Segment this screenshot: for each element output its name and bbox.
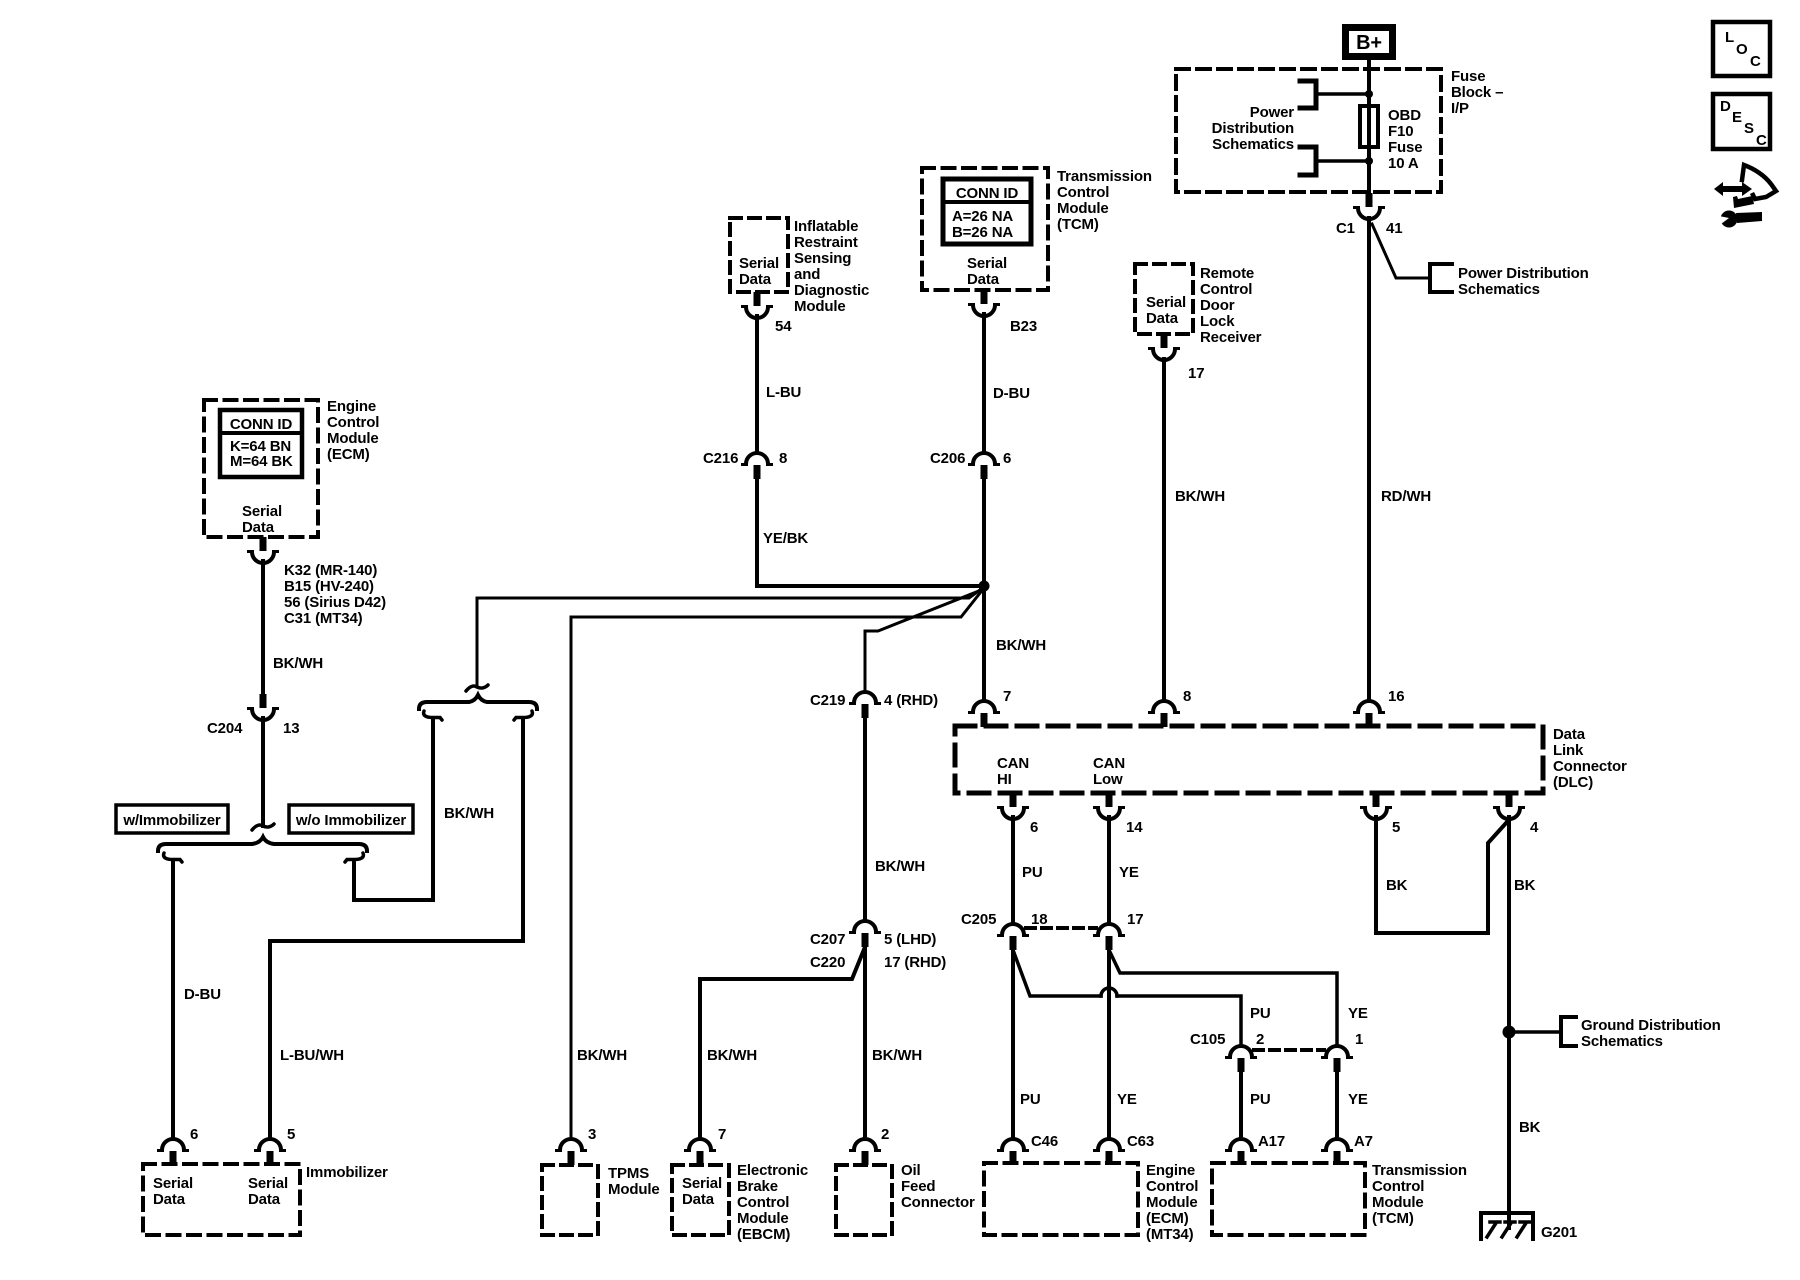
svg-text:OBD: OBD (1388, 107, 1421, 124)
svg-text:Data: Data (739, 271, 772, 288)
wire DLC pin 6 to C205 pin 18 (1011, 817, 1015, 924)
svg-text:Link: Link (1553, 742, 1584, 759)
svg-text:CAN: CAN (1093, 755, 1125, 772)
svg-text:Module: Module (327, 430, 379, 447)
svg-text:Lock: Lock (1200, 313, 1235, 330)
wire pin 54 to C216 (755, 316, 759, 453)
svg-text:Electronic: Electronic (737, 1162, 808, 1179)
wire w/o immobilizer branch over to BK/WH brace (354, 718, 433, 900)
svg-text:4: 4 (1530, 819, 1539, 836)
svg-text:CONN ID: CONN ID (230, 416, 293, 433)
svg-text:Serial: Serial (242, 503, 282, 520)
svg-text:Data: Data (248, 1191, 281, 1208)
svg-text:(EBCM): (EBCM) (737, 1226, 790, 1243)
svg-text:Data: Data (1553, 726, 1586, 743)
svg-text:Block –: Block – (1451, 84, 1503, 101)
svg-text:4 (RHD): 4 (RHD) (884, 692, 938, 709)
wire branch C205-17 to C105 pin 1 (1109, 950, 1337, 1046)
svg-text:BK: BK (1386, 877, 1408, 894)
svg-text:56 (Sirius D42): 56 (Sirius D42) (284, 594, 386, 611)
DLC pin 16 (1355, 701, 1384, 727)
svg-text:1: 1 (1355, 1031, 1363, 1048)
svg-text:17: 17 (1127, 911, 1143, 928)
svg-text:(MT34): (MT34) (1146, 1226, 1194, 1243)
ground distribution bracket (1561, 1017, 1576, 1046)
svg-text:7: 7 (718, 1126, 726, 1143)
DLC pin 7 (970, 701, 999, 727)
CONN ID table ECM (220, 410, 302, 477)
svg-text:2: 2 (881, 1126, 889, 1143)
svg-text:YE: YE (1117, 1091, 1137, 1108)
svg-text:PU: PU (1250, 1091, 1271, 1108)
svg-text:RD/WH: RD/WH (1381, 488, 1431, 505)
svg-text:2: 2 (1256, 1031, 1264, 1048)
svg-text:41: 41 (1386, 220, 1402, 237)
power distribution schematics bracket (1430, 264, 1452, 292)
wire branch C207 to EBCM (700, 947, 865, 1139)
TCM pin A7 (1323, 1139, 1352, 1165)
node dot upper (1365, 90, 1373, 98)
EBCM pin 7 (686, 1139, 715, 1165)
wire B+ to fuse block (1367, 60, 1371, 106)
svg-text:C216: C216 (703, 450, 738, 467)
connector C207 C220 (851, 921, 880, 947)
RCDLR dashed box (1135, 264, 1193, 334)
wire C207 to oil feed connector (863, 945, 867, 1139)
connector C105 pin 2 (1227, 1046, 1256, 1072)
svg-text:D-BU: D-BU (184, 986, 221, 1003)
wire C1 to DLC pin 16 (1367, 218, 1371, 701)
TCM bottom dashed box (1212, 1163, 1365, 1235)
svg-text:Brake: Brake (737, 1178, 778, 1195)
connector C219 pin 4 RHD (851, 692, 880, 718)
svg-text:C: C (1756, 132, 1767, 149)
svg-text:K32 (MR-140): K32 (MR-140) (284, 562, 377, 579)
wire hop over YE wire (1101, 988, 1117, 996)
label TCM (1057, 168, 1152, 233)
svg-text:M=64 BK: M=64 BK (230, 453, 293, 470)
svg-text:Serial: Serial (967, 255, 1007, 272)
svg-text:Module: Module (1146, 1194, 1198, 1211)
svg-text:Data: Data (242, 519, 275, 536)
pin B23 of TCM (970, 290, 999, 316)
ground node dot (1503, 1026, 1516, 1039)
connector C205 pin 18 (999, 924, 1028, 950)
svg-text:14: 14 (1126, 819, 1143, 836)
label Serial Data (739, 255, 779, 288)
svg-text:PU: PU (1250, 1005, 1271, 1022)
svg-text:BK/WH: BK/WH (707, 1047, 757, 1064)
svg-text:L: L (1725, 29, 1734, 46)
svg-text:Transmission: Transmission (1372, 1162, 1467, 1179)
svg-text:Control: Control (327, 414, 379, 431)
svg-text:Immobilizer: Immobilizer (306, 1164, 388, 1181)
svg-text:HI: HI (997, 771, 1012, 788)
wire C219 to C207 (863, 716, 867, 921)
svg-text:Diagnostic: Diagnostic (794, 282, 869, 299)
svg-text:Engine: Engine (327, 398, 376, 415)
oil feed pin 2 (851, 1139, 880, 1165)
fuse OBD F10 10A (1360, 106, 1378, 147)
svg-text:C63: C63 (1127, 1133, 1154, 1150)
wire C206 to junction and DLC pin 7 (982, 477, 986, 701)
svg-text:6: 6 (1030, 819, 1038, 836)
svg-text:B+: B+ (1356, 32, 1382, 54)
wire DLC pin 14 to C205 pin 17 (1107, 817, 1111, 924)
svg-text:YE: YE (1348, 1091, 1368, 1108)
svg-text:F10: F10 (1388, 123, 1413, 140)
TPMS module dashed box (542, 1165, 598, 1235)
immobilizer pin 6 (159, 1139, 188, 1165)
svg-text:BK: BK (1519, 1119, 1541, 1136)
option brace BK/WH (419, 695, 537, 709)
navigation arrow icon (1714, 165, 1776, 228)
connector C206 pin 6 (970, 453, 999, 479)
svg-text:Power: Power (1250, 104, 1295, 121)
Transmission Control Module dashed box (922, 168, 1048, 290)
svg-text:(ECM): (ECM) (1146, 1210, 1189, 1227)
DLC pin 14 (1095, 793, 1124, 819)
connector C216 pin 8 (743, 453, 772, 479)
svg-text:5: 5 (1392, 819, 1400, 836)
connector C1 pin 41 (1355, 193, 1384, 219)
label Serial Data immobilizer left (153, 1175, 193, 1208)
svg-text:Module: Module (1057, 200, 1109, 217)
svg-text:PU: PU (1022, 864, 1043, 881)
power distribution bracket lower (1300, 147, 1316, 175)
svg-text:L-BU/WH: L-BU/WH (280, 1047, 344, 1064)
wire bracket to fuse output (1316, 159, 1369, 163)
svg-text:Data: Data (1146, 310, 1179, 327)
svg-text:C1: C1 (1336, 220, 1355, 237)
svg-text:Schematics: Schematics (1212, 136, 1294, 153)
wire C204 to option breakout (261, 718, 265, 826)
svg-text:BK: BK (1514, 877, 1536, 894)
svg-text:Module: Module (794, 298, 846, 315)
svg-text:O: O (1736, 41, 1748, 58)
svg-text:5 (LHD): 5 (LHD) (884, 931, 936, 948)
Inflatable Restraint module dashed box (730, 218, 788, 292)
svg-text:A=26 NA: A=26 NA (952, 208, 1013, 225)
svg-text:BK/WH: BK/WH (577, 1047, 627, 1064)
svg-text:C204: C204 (207, 720, 243, 737)
svg-text:BK/WH: BK/WH (1175, 488, 1225, 505)
label OBD F10 Fuse 10A (1388, 107, 1422, 172)
svg-text:YE: YE (1119, 864, 1139, 881)
dashed link C105 (1254, 1048, 1324, 1052)
svg-text:54: 54 (775, 318, 792, 335)
svg-text:C105: C105 (1190, 1031, 1225, 1048)
svg-text:E: E (1732, 109, 1742, 126)
svg-text:16: 16 (1388, 688, 1404, 705)
label Transmission Control Module TCM (1372, 1162, 1467, 1227)
svg-text:13: 13 (283, 720, 299, 737)
wire junction to TPMS module (571, 588, 984, 1139)
connector C105 pin 1 (1323, 1046, 1352, 1072)
label Serial Data ECM (242, 503, 282, 536)
ECM pin C63 (1095, 1139, 1124, 1165)
svg-text:C: C (1750, 53, 1761, 70)
svg-text:D: D (1720, 98, 1731, 115)
svg-text:w/Immobilizer: w/Immobilizer (122, 812, 221, 829)
svg-text:C205: C205 (961, 911, 996, 928)
svg-text:5: 5 (287, 1126, 295, 1143)
label TPMS Module (608, 1165, 660, 1198)
label CAN HI (997, 755, 1029, 788)
svg-text:B15 (HV-240): B15 (HV-240) (284, 578, 374, 595)
label Data Link Connector DLC (1553, 726, 1627, 791)
svg-text:BK/WH: BK/WH (444, 805, 494, 822)
dashed link C205 (1026, 926, 1096, 930)
svg-text:w/o Immobilizer: w/o Immobilizer (295, 812, 407, 829)
breakout end mark above brace (466, 685, 488, 691)
svg-text:Feed: Feed (901, 1178, 935, 1195)
svg-text:Schematics: Schematics (1581, 1033, 1663, 1050)
label Fuse Block I/P (1451, 68, 1503, 117)
svg-text:Serial: Serial (1146, 294, 1186, 311)
svg-text:Low: Low (1093, 771, 1123, 788)
Immobilizer dashed box (143, 1164, 300, 1235)
svg-text:Connector: Connector (901, 1194, 975, 1211)
svg-text:8: 8 (779, 450, 787, 467)
svg-text:C220: C220 (810, 954, 845, 971)
svg-text:Sensing: Sensing (794, 250, 851, 267)
node dot lower (1365, 157, 1373, 165)
svg-text:Connector: Connector (1553, 758, 1627, 775)
wire C216 to junction (757, 477, 980, 586)
svg-text:YE: YE (1348, 1005, 1368, 1022)
DLC pin 4 (1495, 793, 1524, 819)
svg-text:YE/BK: YE/BK (763, 530, 808, 547)
svg-text:(DLC): (DLC) (1553, 774, 1593, 791)
wire branch C205-18 to C105 pin 2 (1013, 950, 1241, 1046)
wire bracket to B+ feed (1316, 92, 1369, 96)
svg-text:Serial: Serial (682, 1175, 722, 1192)
EBCM dashed box (672, 1165, 729, 1235)
connector C205 pin 17 (1095, 924, 1124, 950)
ground G201 (1481, 1213, 1533, 1239)
svg-text:(TCM): (TCM) (1057, 216, 1099, 233)
svg-text:(ECM): (ECM) (327, 446, 370, 463)
svg-text:BK/WH: BK/WH (996, 637, 1046, 654)
svg-text:Control: Control (1372, 1178, 1424, 1195)
wire C105-2 to TCM A17 (1239, 1070, 1243, 1139)
svg-text:Oil: Oil (901, 1162, 921, 1179)
label Remote Control Door Lock Receiver (1200, 265, 1262, 346)
svg-text:Data: Data (967, 271, 1000, 288)
Fuse Block - I/P dashed box (1176, 69, 1441, 192)
splice junction node (979, 581, 990, 592)
label K32 B15 56 C31 options (284, 562, 386, 627)
svg-text:C46: C46 (1031, 1133, 1058, 1150)
label Serial Data immobilizer right (248, 1175, 288, 1208)
svg-text:Fuse: Fuse (1388, 139, 1422, 156)
svg-text:A7: A7 (1354, 1133, 1373, 1150)
label Serial Data EBCM (682, 1175, 722, 1208)
svg-text:C206: C206 (930, 450, 965, 467)
label Oil Feed Connector (901, 1162, 975, 1211)
svg-text:8: 8 (1183, 688, 1191, 705)
svg-text:18: 18 (1031, 911, 1047, 928)
svg-text:Power Distribution: Power Distribution (1458, 265, 1589, 282)
ECM MT34 dashed box (984, 1163, 1138, 1235)
label Inflatable Restraint Sensing and Diagnostic Module (794, 218, 869, 315)
svg-text:Module: Module (737, 1210, 789, 1227)
svg-text:Serial: Serial (739, 255, 779, 272)
wire junction to C219 (865, 589, 984, 692)
power distribution bracket upper (1300, 81, 1316, 108)
wire RCDLR to DLC pin 8 (1162, 359, 1166, 701)
wire TCM to C206 (982, 314, 986, 453)
breakout end mark (252, 824, 274, 830)
svg-text:Control: Control (737, 1194, 789, 1211)
svg-text:Remote: Remote (1200, 265, 1254, 282)
label Serial Data TCM (967, 255, 1007, 288)
DESC icon (1713, 94, 1770, 149)
svg-text:B23: B23 (1010, 318, 1037, 335)
svg-text:A17: A17 (1258, 1133, 1285, 1150)
w/Immobilizer option box (116, 805, 228, 833)
svg-text:PU: PU (1020, 1091, 1041, 1108)
wire w/immobilizer branch to pin 6 (171, 860, 175, 1139)
svg-text:Control: Control (1200, 281, 1252, 298)
branch hook w/o immobilizer (345, 853, 363, 862)
pin 54 (743, 292, 772, 318)
svg-text:Door: Door (1200, 297, 1235, 314)
svg-text:B=26 NA: B=26 NA (952, 224, 1013, 241)
svg-text:Module: Module (608, 1181, 660, 1198)
ECM pin C46 (999, 1139, 1028, 1165)
svg-text:Serial: Serial (153, 1175, 193, 1192)
svg-text:7: 7 (1003, 688, 1011, 705)
svg-text:Module: Module (1372, 1194, 1424, 1211)
svg-text:Ground Distribution: Ground Distribution (1581, 1017, 1721, 1034)
svg-text:BK/WH: BK/WH (875, 858, 925, 875)
pin of ECM serial data (249, 537, 278, 563)
branch hook w/immobilizer (164, 853, 182, 862)
Oil Feed Connector dashed box (836, 1165, 892, 1235)
svg-text:S: S (1744, 120, 1754, 137)
svg-text:and: and (794, 266, 820, 283)
wire junction to BK/WH option brace (477, 587, 984, 687)
svg-text:L-BU: L-BU (766, 384, 801, 401)
svg-text:C219: C219 (810, 692, 845, 709)
wire DLC pin 5 loop to pin 4 (1376, 817, 1507, 933)
branch hook right of BK/WH brace (514, 711, 532, 720)
wire diagonal to power distribution schematics ref (1372, 224, 1430, 278)
w/o Immobilizer option box (289, 805, 413, 833)
DLC pin 5 (1362, 793, 1391, 819)
svg-text:BK/WH: BK/WH (872, 1047, 922, 1064)
svg-text:Engine: Engine (1146, 1162, 1195, 1179)
TCM pin A17 (1227, 1139, 1256, 1165)
label Engine Control Module ECM MT34 (1146, 1162, 1198, 1243)
svg-text:Transmission: Transmission (1057, 168, 1152, 185)
svg-text:17: 17 (1188, 365, 1204, 382)
wire C105-1 to TCM A7 (1335, 1070, 1339, 1139)
svg-text:Data: Data (682, 1191, 715, 1208)
svg-text:Schematics: Schematics (1458, 281, 1540, 298)
svg-text:17 (RHD): 17 (RHD) (884, 954, 946, 971)
DLC dashed box (955, 726, 1543, 793)
pin 17 of RCDLR (1150, 334, 1179, 360)
DLC pin 6 (999, 793, 1028, 819)
LOC icon (1713, 22, 1770, 76)
svg-text:Receiver: Receiver (1200, 329, 1262, 346)
svg-text:BK/WH: BK/WH (273, 655, 323, 672)
svg-text:6: 6 (190, 1126, 198, 1143)
svg-text:G201: G201 (1541, 1224, 1577, 1241)
svg-text:3: 3 (588, 1126, 596, 1143)
branch hook left of BK/WH brace (424, 711, 442, 720)
label Power Distribution Schematics (1212, 104, 1295, 153)
svg-text:CAN: CAN (997, 755, 1029, 772)
connector C204 pin 13 (249, 694, 278, 720)
svg-text:Control: Control (1146, 1178, 1198, 1195)
wire C205 pin 18 to ECM C46 (1011, 948, 1015, 1139)
svg-text:Restraint: Restraint (794, 234, 858, 251)
CONN ID table TCM (943, 179, 1031, 244)
svg-text:I/P: I/P (1451, 100, 1469, 117)
svg-text:C31 (MT34): C31 (MT34) (284, 610, 363, 627)
svg-text:Control: Control (1057, 184, 1109, 201)
svg-text:6: 6 (1003, 450, 1011, 467)
label CAN Low (1093, 755, 1125, 788)
TPMS pin 3 (557, 1139, 586, 1165)
immobilizer pin 5 (256, 1139, 285, 1165)
svg-text:Distribution: Distribution (1212, 120, 1294, 137)
svg-text:CONN ID: CONN ID (956, 185, 1019, 202)
label ECM (327, 398, 379, 463)
wire DLC pin 4 to ground (1507, 817, 1511, 1228)
svg-text:Fuse: Fuse (1451, 68, 1485, 85)
label Electronic Brake Control Module EBCM (737, 1162, 808, 1243)
option brace under C204 (158, 837, 367, 851)
svg-text:10 A: 10 A (1388, 155, 1419, 172)
wire to ground distribution bracket (1509, 1030, 1561, 1034)
wire C205 pin 17 to ECM C63 (1107, 948, 1111, 1139)
svg-text:Serial: Serial (248, 1175, 288, 1192)
B+ battery symbol (1346, 28, 1393, 57)
svg-text:TPMS: TPMS (608, 1165, 649, 1182)
svg-text:Data: Data (153, 1191, 186, 1208)
wire right branch to immobilizer pin 5 (270, 718, 523, 1139)
svg-text:(TCM): (TCM) (1372, 1210, 1414, 1227)
svg-text:D-BU: D-BU (993, 385, 1030, 402)
DLC pin 8 (1150, 701, 1179, 727)
Engine Control Module dashed box (204, 400, 318, 537)
wire through fuse (1367, 94, 1371, 193)
svg-text:C207: C207 (810, 931, 845, 948)
label Serial Data (1146, 294, 1186, 327)
wire ECM to C204 (261, 561, 265, 694)
svg-text:Inflatable: Inflatable (794, 218, 858, 235)
